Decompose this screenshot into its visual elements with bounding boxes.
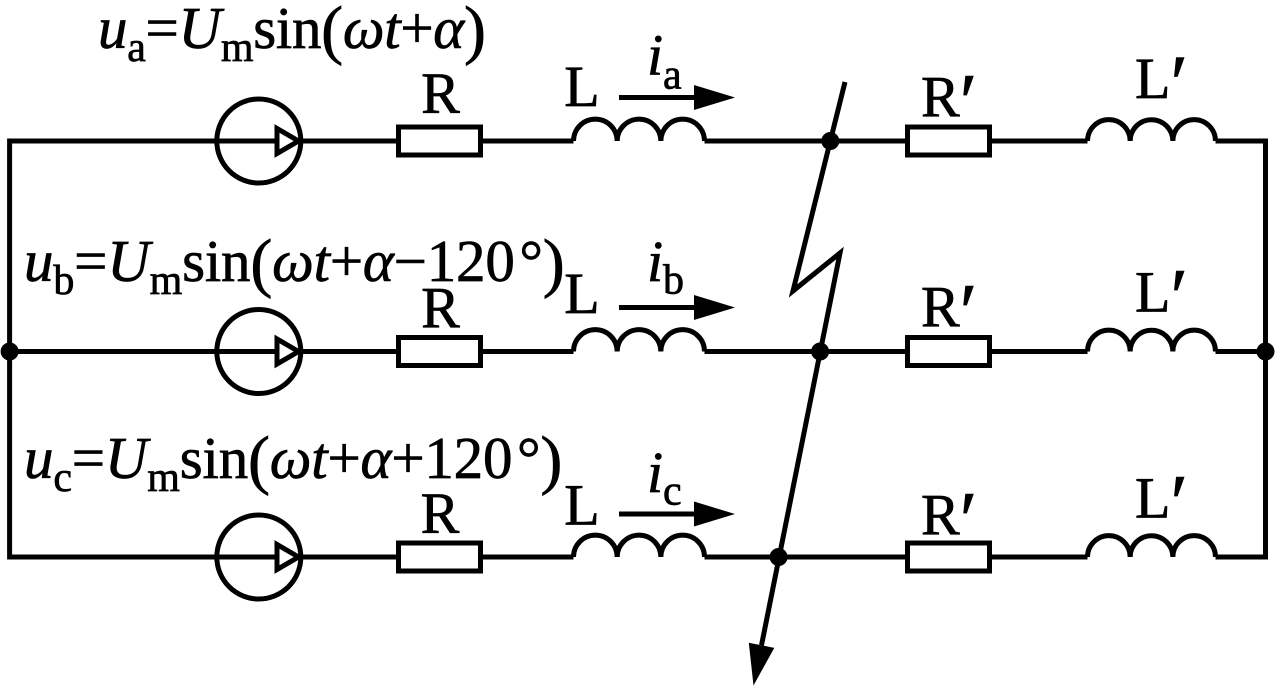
svg-text:R: R [421, 61, 460, 126]
svg-text:L′: L′ [1135, 254, 1188, 342]
svg-text:R: R [421, 481, 460, 546]
svg-text:ub=Umsin(ωt+α−120 °): ub=Umsin(ωt+α−120 °) [24, 227, 565, 305]
svg-text:L′: L′ [1135, 41, 1188, 129]
svg-text:L: L [564, 261, 599, 326]
svg-text:i: i [647, 229, 663, 294]
svg-text:i: i [647, 440, 663, 505]
svg-text:R′: R′ [921, 269, 977, 357]
svg-text:L: L [564, 54, 599, 119]
svg-text:R′: R′ [921, 477, 977, 565]
svg-text:R: R [421, 276, 460, 341]
svg-text:uc=Umsin(ωt+α+120 °): uc=Umsin(ωt+α+120 °) [24, 424, 562, 502]
svg-text:b: b [663, 258, 684, 304]
svg-text:c: c [663, 469, 682, 515]
svg-text:a: a [663, 53, 682, 99]
svg-text:L: L [564, 472, 599, 537]
svg-text:i: i [647, 23, 663, 88]
svg-text:R′: R′ [921, 59, 977, 147]
